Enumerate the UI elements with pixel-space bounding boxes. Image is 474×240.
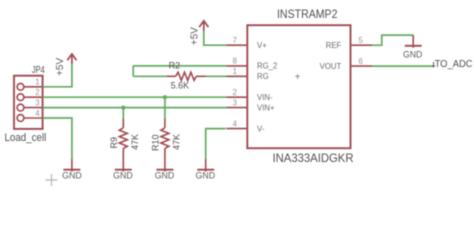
svg-text:Load_cell: Load_cell (5, 132, 47, 144)
svg-text:GND: GND (155, 170, 175, 180)
svg-text:8: 8 (233, 57, 237, 66)
svg-text:47K: 47K (130, 134, 140, 150)
ground GND1 origin cross (46, 174, 58, 186)
pin 7 V+ stub (227, 44, 248, 46)
svg-text:1: 1 (35, 78, 39, 87)
node junction R10/VIN- (163, 95, 167, 99)
pin 5 REF stub (351, 44, 373, 46)
svg-text:R10: R10 (151, 134, 161, 151)
node TO_ADC label origin tick (432, 62, 435, 68)
wire REF to ground (372, 35, 413, 45)
JP4 pin 1 stub (24, 86, 43, 88)
svg-text:R2: R2 (169, 60, 181, 70)
svg-text:VIN+: VIN+ (257, 103, 275, 112)
svg-text:3: 3 (35, 98, 39, 107)
svg-text:3: 3 (233, 98, 237, 107)
wire JP4 pin4 to ground (43, 118, 72, 159)
svg-text:R9: R9 (109, 137, 119, 149)
svg-text:VOUT: VOUT (320, 62, 342, 71)
svg-text:2: 2 (233, 88, 237, 97)
wire VOUT to TO_ADC (372, 65, 434, 67)
op-amp U1 INSTRAMP2 body (247, 25, 350, 148)
ground GND5 (REF) (405, 35, 422, 48)
JP4 pin 2 circle (17, 94, 24, 101)
resistor R2 leads (167, 75, 206, 77)
connector JP4 body (14, 76, 43, 129)
pin 2 VIN- stub (227, 96, 248, 98)
wire RG_2 loop top: to pin8 (133, 65, 226, 67)
svg-text:4: 4 (233, 119, 238, 128)
svg-text:6: 6 (359, 57, 363, 66)
JP4 pin 4 circle (17, 115, 24, 122)
resistor R2 (176, 72, 197, 80)
wire VIN- net: JP4 pin2 to IC pin2 (43, 96, 227, 98)
svg-text:+: + (295, 72, 301, 83)
svg-text:GND: GND (62, 170, 82, 180)
svg-text:+5V: +5V (55, 58, 66, 76)
JP4 pin 3 stub (24, 107, 43, 109)
pin 3 VIN+ stub (227, 107, 248, 109)
ground GND2 (R9) (115, 159, 132, 172)
resistor R10 (161, 119, 169, 159)
ground GND1 (load cell) (63, 159, 80, 172)
svg-text:V+: V+ (257, 41, 267, 50)
JP4 pin 3 circle (17, 104, 24, 111)
svg-text:GND: GND (196, 170, 216, 180)
wire IC pin4 to ground (206, 129, 226, 159)
pin 6 VOUT stub (351, 65, 373, 67)
svg-text:V-: V- (257, 124, 265, 133)
svg-text:4: 4 (35, 109, 40, 118)
node junction R9/VIN+ (121, 106, 125, 110)
svg-text:GND: GND (403, 49, 423, 59)
wire +5V to IC pin7 (204, 31, 227, 45)
wire VIN- junction down to R10 (crosses VIN+ wire) (164, 97, 166, 118)
svg-text:RG: RG (257, 72, 269, 81)
svg-text:2: 2 (35, 88, 39, 97)
supply +5V at JP4 arrow (67, 54, 76, 64)
wire JP4 pin1 to +5V (43, 64, 72, 87)
svg-text:TO_ADC: TO_ADC (435, 59, 473, 70)
svg-text:RG_2: RG_2 (257, 62, 277, 71)
ground GND3 (R10) (156, 159, 173, 172)
svg-text:47K: 47K (172, 134, 182, 150)
wire VIN+ net: JP4 pin3 to IC pin3 (43, 107, 227, 109)
svg-text:REF: REF (326, 41, 342, 50)
resistor R9 (119, 119, 127, 159)
ground GND4 (IC V-) (197, 159, 214, 172)
pin 1 RG stub (227, 75, 248, 77)
wire RG loop bottom: R2 to pin1 (133, 75, 226, 77)
svg-text:5: 5 (359, 36, 364, 45)
svg-text:7: 7 (233, 36, 237, 45)
svg-text:5.6K: 5.6K (171, 81, 190, 91)
svg-text:INA333AIDGKR: INA333AIDGKR (273, 151, 354, 165)
wire VIN+ junction down to R9 (122, 108, 124, 119)
svg-text:+5V: +5V (189, 27, 200, 45)
pin 8 RG_2 stub (227, 65, 248, 67)
JP4 pin 1 circle (17, 83, 24, 90)
JP4 pin 4 stub (24, 117, 43, 119)
supply +5V at IC arrow (199, 21, 208, 31)
svg-text:1: 1 (233, 67, 237, 76)
svg-text:JP4: JP4 (32, 65, 45, 76)
wire RG loop left vertical (132, 66, 134, 76)
JP4 pin 2 stub (24, 96, 43, 98)
pin 4 V- stub (227, 128, 248, 130)
svg-text:INSTRAMP2: INSTRAMP2 (277, 7, 338, 21)
svg-text:GND: GND (113, 170, 133, 180)
svg-text:VIN-: VIN- (257, 93, 273, 102)
